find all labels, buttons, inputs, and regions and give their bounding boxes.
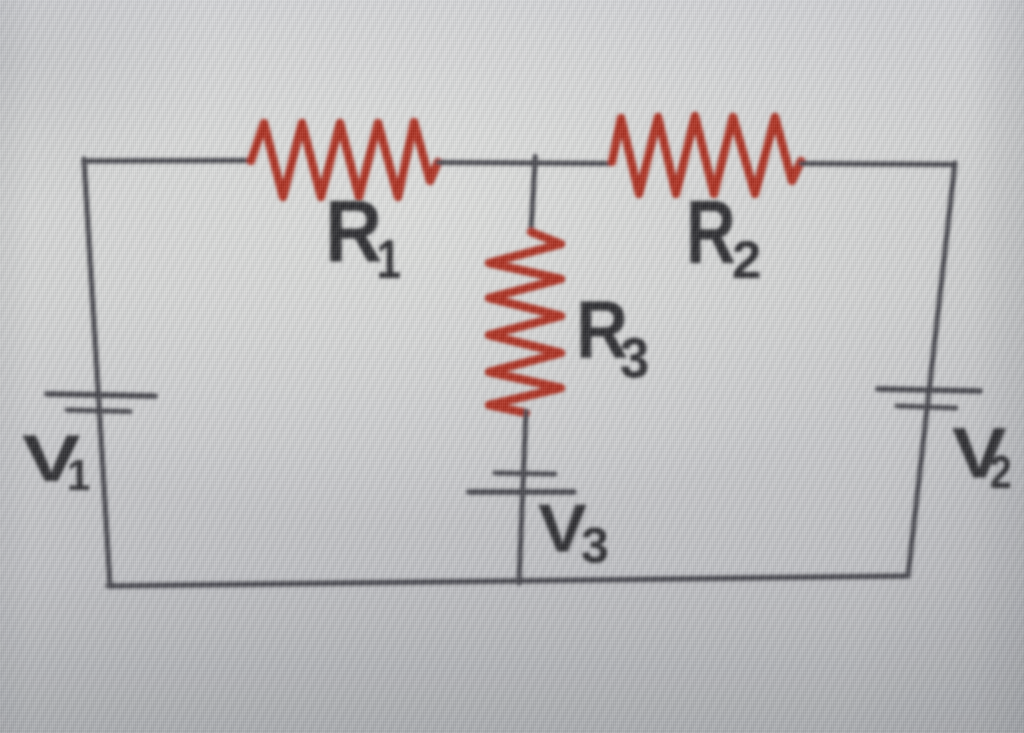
node junction middle-top	[531, 157, 535, 233]
svg-text:2: 2	[732, 231, 761, 290]
battery V3 short plate	[495, 473, 555, 474]
wire left branch	[84, 159, 110, 586]
battery V2 long plate	[878, 389, 980, 391]
battery V3 long plate	[469, 489, 574, 495]
wire middle-bottom segment	[519, 411, 526, 583]
svg-text:V: V	[538, 490, 587, 566]
svg-text:1: 1	[67, 451, 90, 500]
battery V2 short plate	[897, 406, 956, 408]
wire top-left segment	[84, 158, 251, 164]
svg-text:1: 1	[377, 228, 401, 290]
svg-text:R: R	[686, 181, 736, 282]
wire right branch	[908, 163, 955, 576]
resistor R1	[251, 122, 438, 197]
resistor R3	[489, 232, 561, 413]
svg-text:R: R	[325, 182, 382, 281]
battery V1 long plate	[47, 394, 155, 396]
svg-text:3: 3	[581, 518, 609, 574]
resistor R2	[612, 116, 801, 194]
battery V1 short plate	[67, 410, 130, 412]
wire bottom segment	[108, 576, 908, 586]
wire top-middle segment	[438, 163, 612, 164]
svg-text:2: 2	[990, 447, 1012, 499]
svg-text:3: 3	[620, 325, 649, 390]
wire top-right segment	[801, 164, 955, 165]
